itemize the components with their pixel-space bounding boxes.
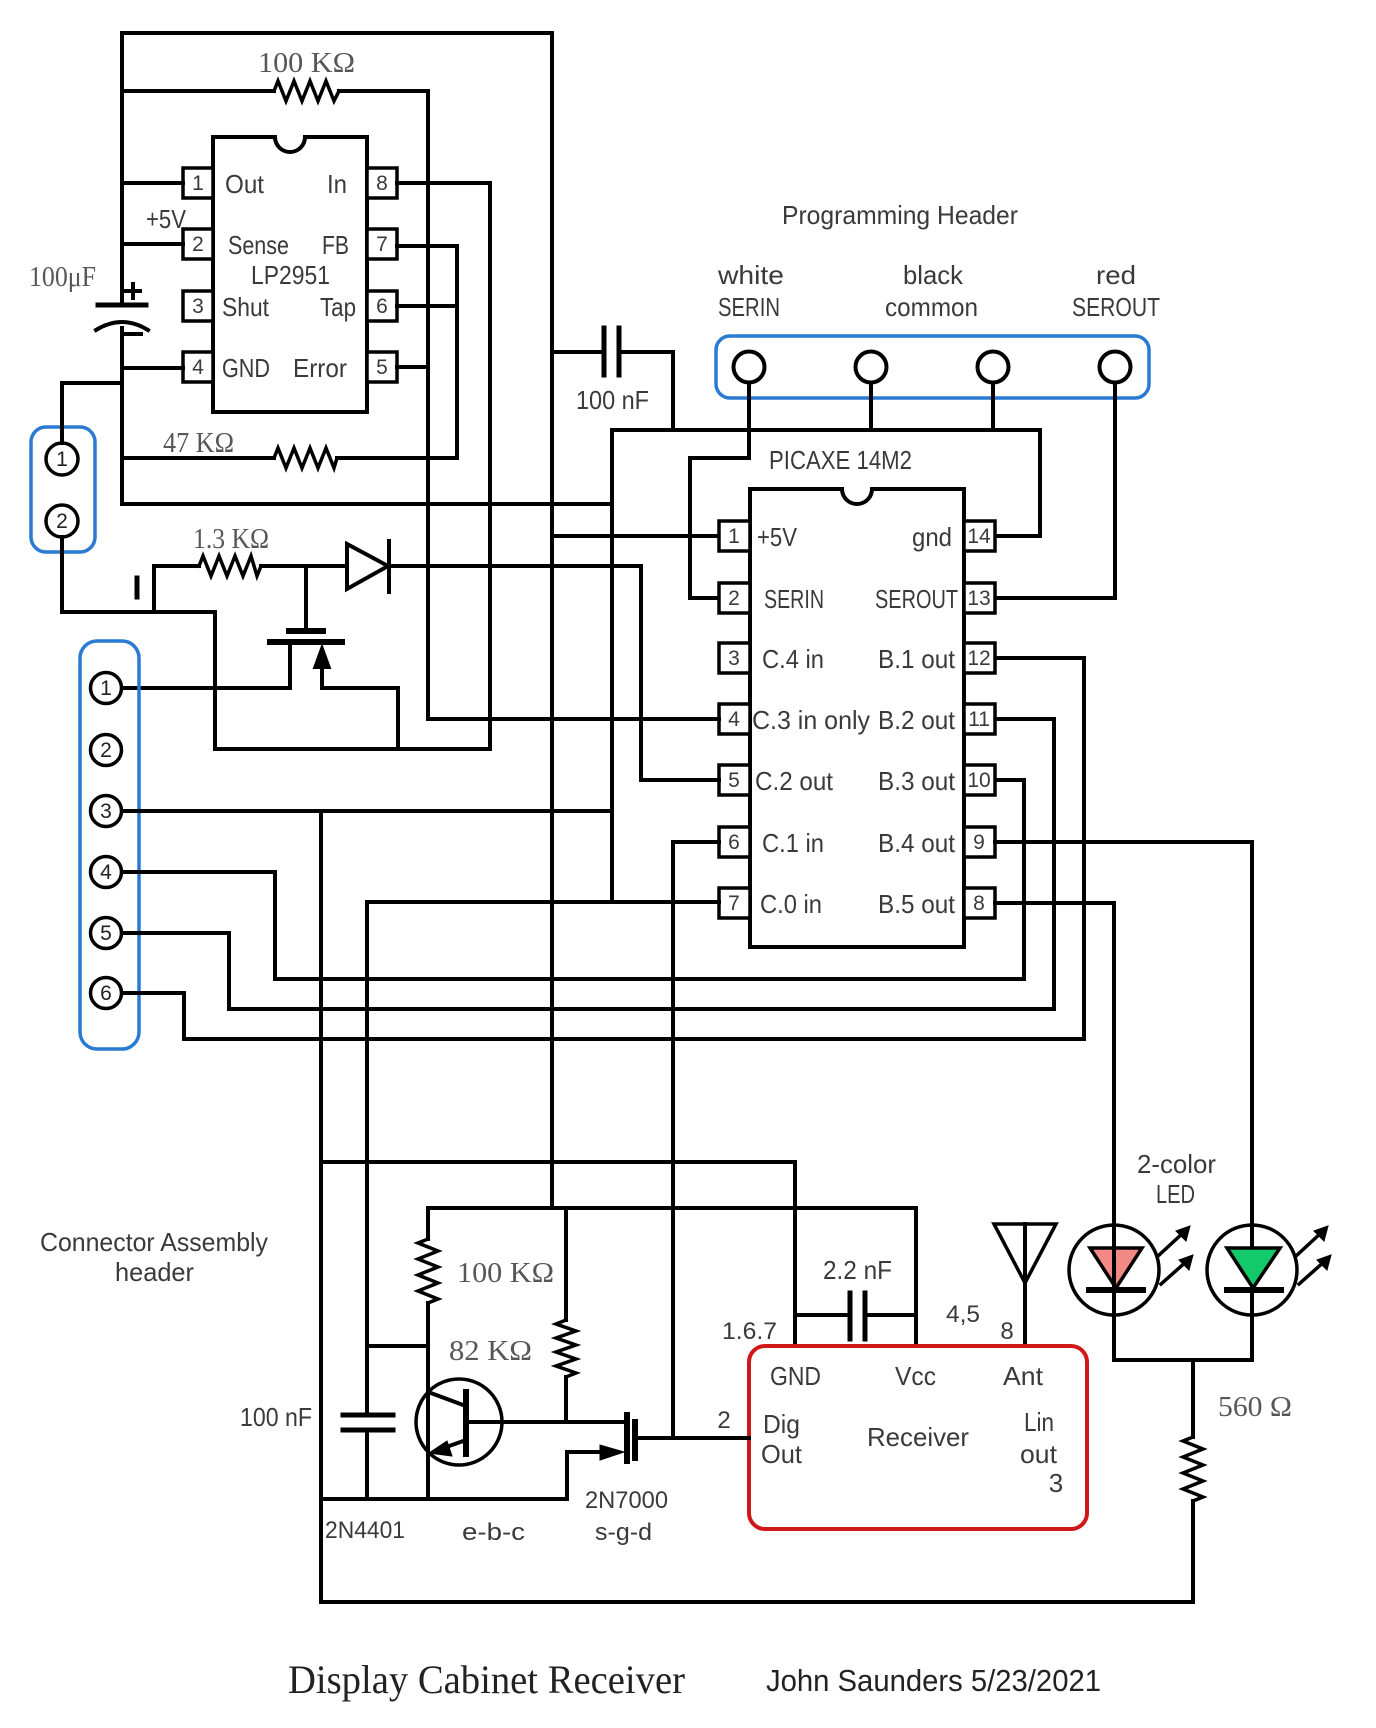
transistor Q2 2N4401 circle <box>416 1379 502 1465</box>
pin box U2-5 <box>719 765 750 795</box>
wire: J3 pin2 to gnd link <box>869 383 873 430</box>
svg-text:LED: LED <box>1156 1179 1195 1209</box>
svg-text:1: 1 <box>192 172 204 195</box>
transistor Q2 bar <box>463 1392 469 1454</box>
wire: C3 top lead <box>365 1346 369 1415</box>
svg-text:100 nF: 100 nF <box>240 1402 312 1432</box>
LED DS1 emission arrows <box>1158 1232 1187 1284</box>
LED DS1 wire through body <box>1112 1225 1116 1315</box>
wire: J3 pin1 to PICAXE SERIN <box>690 383 749 598</box>
wire: J2 pin5 to B.2 out <box>122 719 1054 1009</box>
pin box U2-2 <box>719 583 750 613</box>
svg-text:C.1 in: C.1 in <box>762 828 824 858</box>
svg-text:C.2 out: C.2 out <box>755 766 834 796</box>
wire: U1 pin2 Sense to left rail <box>122 242 183 246</box>
wire: Q2 base to 82K and Q3 gate <box>466 1420 626 1424</box>
svg-text:2: 2 <box>100 739 112 762</box>
pin box U1-7 <box>367 229 397 259</box>
wire: base link y1346 <box>367 1344 428 1348</box>
svg-text:C.4 in: C.4 in <box>762 644 824 674</box>
svg-text:11: 11 <box>968 708 990 731</box>
wire: U2 pin9 B.4 to green LED <box>995 842 1252 1360</box>
transistor Q1 P-MOSFET gate lead <box>304 566 308 629</box>
svg-text:1: 1 <box>100 677 112 700</box>
svg-text:7: 7 <box>376 233 388 256</box>
svg-text:100 KΩ: 100 KΩ <box>258 47 355 79</box>
svg-text:4: 4 <box>728 708 740 731</box>
svg-text:FB: FB <box>322 230 349 260</box>
wire: U2 pin8 B.5 to red LED <box>995 903 1114 1360</box>
svg-text:LP2951: LP2951 <box>251 260 330 290</box>
wire: receiver Vcc riser x916 <box>914 1208 918 1346</box>
resistor R 1.3K <box>199 556 261 576</box>
pin box U1-3 <box>183 291 213 321</box>
wire: ground rail bottom <box>321 1600 1193 1604</box>
pin box U2-3 <box>719 643 750 673</box>
svg-text:13: 13 <box>967 587 990 610</box>
svg-text:white: white <box>717 260 784 290</box>
svg-text:9: 9 <box>973 831 985 854</box>
wire: J1 pin2 down to 1.3K net <box>62 537 215 612</box>
pin box U2-9 <box>964 827 995 857</box>
wire: 100K bias bottom to BJT base <box>426 1303 430 1499</box>
svg-text:out: out <box>1020 1439 1058 1469</box>
antenna ANT1 triangle <box>994 1224 1056 1283</box>
wire: LED join to 560R <box>1191 1360 1195 1437</box>
wire: U1 pin8 In to bus x490 <box>397 183 490 748</box>
svg-text:100 KΩ: 100 KΩ <box>457 1257 554 1289</box>
pin box U2-14 <box>964 521 995 551</box>
svg-text:100 nF: 100 nF <box>576 385 649 415</box>
wire: x321 vertical to ground rail <box>319 811 323 1602</box>
wire: diode output net y566 <box>389 564 641 568</box>
resistor R 82K top lead <box>564 1208 568 1320</box>
wire: 47K net <box>122 456 274 460</box>
svg-text:14: 14 <box>967 525 991 548</box>
wire: +5V rail y1208 <box>428 1206 916 1210</box>
svg-text:6: 6 <box>728 831 740 854</box>
wire: x367 riser <box>365 902 369 1346</box>
wire: source to J2 pin1 <box>122 686 290 690</box>
connector J3 circle 2 black common <box>856 352 887 383</box>
svg-text:SEROUT: SEROUT <box>875 584 958 614</box>
svg-text:3: 3 <box>100 800 112 823</box>
connector J1 circle 1 <box>46 443 78 475</box>
svg-text:1.3 KΩ: 1.3 KΩ <box>193 523 269 555</box>
IC U1 LP2951 body <box>213 137 367 412</box>
connector J2 circle 3 <box>91 796 122 827</box>
svg-text:B.3 out: B.3 out <box>878 766 956 796</box>
svg-text:GND: GND <box>770 1361 821 1391</box>
svg-text:2: 2 <box>192 233 204 256</box>
resistor R 560 <box>1183 1437 1203 1501</box>
svg-text:2: 2 <box>56 510 68 533</box>
wire: 100K right to vertical bus x428 <box>339 91 428 718</box>
svg-text:Receiver: Receiver <box>867 1422 969 1452</box>
wire: U2 pin5 C.2 to diode net <box>641 566 719 780</box>
svg-text:C.0 in: C.0 in <box>760 889 822 919</box>
svg-text:Error: Error <box>293 353 347 383</box>
wire: drain rail y749 <box>215 612 490 749</box>
svg-text:GND: GND <box>222 353 270 383</box>
svg-text:header: header <box>115 1257 194 1287</box>
wire: U2 pin7 C.0 net y902 <box>367 900 719 904</box>
svg-text:+5V: +5V <box>146 204 187 234</box>
pin box U2-4 <box>719 704 750 734</box>
svg-text:e-b-c: e-b-c <box>462 1519 525 1546</box>
wire: 100K feedback net left <box>122 89 274 93</box>
LED DS1 red circle <box>1069 1225 1159 1315</box>
wire: emitter rail y1499 <box>321 1497 567 1501</box>
pin box U2-1 <box>719 521 750 551</box>
wire: U2 pin6 C.1 to x673 bus <box>673 840 719 844</box>
wire: 100K bias top lead <box>426 1208 430 1239</box>
svg-text:Shut: Shut <box>222 292 270 322</box>
capacitor C1 plus mark <box>126 284 140 298</box>
wire: U2 pin4 C.3 to bus x428 <box>428 717 719 721</box>
LED DS2 emission arrows <box>1296 1232 1325 1284</box>
svg-text:5: 5 <box>728 769 740 792</box>
capacitor C4 2.2nF left lead <box>795 1313 850 1317</box>
transistor Q1 body arrow <box>314 646 330 668</box>
resistor R 82K <box>556 1320 576 1377</box>
svg-text:B.5 out: B.5 out <box>878 889 956 919</box>
diode D1 body <box>347 544 388 589</box>
wire: gnd rail y504 <box>122 502 612 506</box>
capacitor C1 100uF curved plate <box>96 322 148 330</box>
connector J3 circle 1 white SERIN <box>734 352 765 383</box>
wire: x612 riser <box>610 430 614 902</box>
svg-text:7: 7 <box>728 892 740 915</box>
svg-text:common: common <box>885 292 978 322</box>
svg-text:C.3 in only: C.3 in only <box>752 705 870 735</box>
svg-text:3: 3 <box>728 647 740 670</box>
connector J2 circle 6 <box>91 978 122 1009</box>
wire: J3 pin3 to gnd link <box>991 383 995 430</box>
svg-text:Out: Out <box>761 1439 803 1469</box>
svg-text:1: 1 <box>56 448 68 471</box>
svg-text:1.6.7: 1.6.7 <box>722 1318 777 1345</box>
pin box U1-4 <box>183 352 213 382</box>
svg-text:Dig: Dig <box>763 1409 800 1439</box>
transistor Q1 source leg <box>288 645 292 688</box>
transistor Q2 collector diagonal <box>428 1392 466 1406</box>
wire: U1 pin1 Out to left rail <box>122 181 183 185</box>
svg-text:8: 8 <box>376 172 388 195</box>
svg-text:3: 3 <box>1049 1468 1063 1498</box>
svg-text:100μF: 100μF <box>29 261 96 293</box>
antenna ANT1 mast <box>1023 1224 1027 1346</box>
LED DS2 cathode bar <box>1227 1287 1281 1293</box>
svg-text:Display Cabinet Receiver: Display Cabinet Receiver <box>288 1657 685 1702</box>
svg-text:5: 5 <box>376 356 388 379</box>
svg-text:4: 4 <box>100 861 112 884</box>
pin box U1-2 <box>183 229 213 259</box>
svg-text:Tap: Tap <box>320 292 356 322</box>
svg-text:+5V: +5V <box>757 522 798 552</box>
capacitor C4 2.2nF plates <box>850 1293 865 1339</box>
svg-text:Ant: Ant <box>1003 1361 1044 1391</box>
svg-text:Vcc: Vcc <box>895 1361 936 1391</box>
svg-text:In: In <box>327 169 347 199</box>
transistor Q3 channel bar <box>632 1422 638 1458</box>
connector J1 circle 2 <box>46 505 78 537</box>
pin box U1-6 <box>367 291 397 321</box>
svg-text:47 KΩ: 47 KΩ <box>163 427 234 459</box>
connector J2 circle 4 <box>91 857 122 888</box>
svg-text:12: 12 <box>967 647 990 670</box>
pin box U2-6 <box>719 827 750 857</box>
LED DS1 cathode bar <box>1089 1287 1143 1293</box>
svg-text:8: 8 <box>1000 1318 1013 1345</box>
svg-text:82 KΩ: 82 KΩ <box>449 1335 532 1367</box>
LED DS2 green triangle <box>1227 1248 1280 1288</box>
wire: U1 pin5 Error to bus x428 <box>397 365 428 369</box>
svg-text:2.2 nF: 2.2 nF <box>823 1255 892 1285</box>
svg-text:10: 10 <box>967 769 990 792</box>
wire: 1.3K left terminal <box>154 566 199 612</box>
capacitor C3 100nF plates <box>343 1415 393 1430</box>
connector J2 6-pin body <box>80 641 139 1049</box>
capacitor C4 right lead <box>865 1313 916 1317</box>
capacitor C2 100nF left lead <box>552 350 604 354</box>
transistor Q1 gate bar <box>289 628 323 634</box>
svg-text:2N4401: 2N4401 <box>325 1517 405 1544</box>
diode D1 cathode bar <box>387 541 391 592</box>
svg-text:5: 5 <box>100 922 112 945</box>
svg-text:8: 8 <box>973 892 985 915</box>
resistor R 100K bias <box>418 1239 438 1303</box>
wire: J3 pin4 to PICAXE SEROUT <box>995 383 1115 598</box>
wire: 1.3K to diode anode <box>261 564 347 568</box>
transistor Q3 2N7000 gate bar <box>624 1415 630 1461</box>
connector J2 circle 2 <box>91 735 122 766</box>
svg-text:2-color: 2-color <box>1137 1149 1216 1179</box>
capacitor C1 minus mark <box>124 332 141 336</box>
resistor R 100K top <box>274 81 339 101</box>
svg-text:3: 3 <box>192 295 204 318</box>
svg-text:B.4 out: B.4 out <box>878 828 956 858</box>
pin box U2-12 <box>964 643 995 673</box>
wire: U1 pin7 FB to riser x457 <box>397 246 457 458</box>
wire: C2 right lead to gnd line <box>619 352 673 430</box>
svg-text:SEROUT: SEROUT <box>1072 292 1160 322</box>
wire: C3 bottom lead <box>365 1430 369 1499</box>
pin box U1-5 <box>367 352 397 382</box>
pin box U1-8 <box>367 168 397 198</box>
svg-text:SERIN: SERIN <box>764 584 824 614</box>
svg-text:2: 2 <box>717 1407 730 1434</box>
svg-text:Lin: Lin <box>1024 1407 1054 1437</box>
pin box U2-7 <box>719 888 750 918</box>
svg-text:4: 4 <box>192 356 204 379</box>
wire: J1 pin1 to gnd <box>62 383 122 443</box>
wire: Q3 drain to receiver Dig Out <box>637 1436 749 1440</box>
transistor Q1 channel bar <box>270 639 342 645</box>
wire: J2 pin3 to x612 <box>122 809 612 813</box>
wire: receiver GND riser x795 <box>793 1162 797 1346</box>
wire: Q3 source lead <box>567 1452 601 1499</box>
svg-text:B.1 out: B.1 out <box>878 644 956 674</box>
svg-text:2: 2 <box>728 587 740 610</box>
wire: +5V top border <box>122 33 552 305</box>
wire: gnd link to PICAXE pin14 <box>995 430 1040 536</box>
pin box U2-11 <box>964 704 995 734</box>
connector J2 circle 1 <box>91 673 122 704</box>
svg-text:black: black <box>903 260 964 290</box>
wire: 47K right to riser x457 <box>337 456 457 460</box>
module RX1 receiver body <box>749 1346 1087 1529</box>
transistor Q2 emitter diagonal <box>438 1440 466 1450</box>
capacitor C1 100uF top plate <box>98 303 146 308</box>
wire: x673 bus down to receiver Dig Out <box>671 842 675 1438</box>
transistor Q1 drain leg with body arrow shaft <box>320 668 324 688</box>
wire: J2 pin4 to B.3 out <box>122 780 1024 979</box>
svg-text:gnd: gnd <box>912 522 952 552</box>
transistor Q2 emitter arrow <box>429 1441 452 1456</box>
wire: +5V to PICAXE pin1 <box>552 534 719 538</box>
svg-text:PICAXE 14M2: PICAXE 14M2 <box>769 445 912 475</box>
IC U2 PICAXE 14M2 body <box>750 489 964 947</box>
wire: left rail below cap <box>120 328 124 504</box>
connector J3 programming header body <box>716 336 1149 398</box>
polarity tick mark <box>135 578 140 597</box>
svg-text:s-g-d: s-g-d <box>595 1519 652 1546</box>
LED DS1 red triangle <box>1090 1248 1142 1288</box>
svg-text:Programming Header: Programming Header <box>782 200 1018 230</box>
connector J3 circle 4 red SEROUT <box>1100 352 1131 383</box>
wire: 82K bottom lead <box>564 1377 568 1422</box>
svg-text:Sense: Sense <box>228 230 289 260</box>
resistor R 47K <box>274 448 337 468</box>
svg-text:1: 1 <box>728 525 740 548</box>
LED DS2 green circle <box>1207 1225 1297 1315</box>
wire: gnd link y430 <box>612 428 1040 432</box>
connector J2 circle 5 <box>91 918 122 949</box>
wire: U1 pin4 GND to left rail <box>122 366 183 370</box>
svg-text:John Saunders 5/23/2021: John Saunders 5/23/2021 <box>766 1663 1101 1698</box>
svg-text:Connector Assembly: Connector Assembly <box>40 1227 268 1257</box>
pin box U2-8 <box>964 888 995 918</box>
svg-text:Out: Out <box>225 169 265 199</box>
svg-text:6: 6 <box>376 295 388 318</box>
capacitor C2 100nF plates <box>604 328 619 375</box>
wire: x552 +5V bus <box>550 33 554 1208</box>
LED DS2 wire through body <box>1250 1225 1254 1315</box>
pin box U2-10 <box>964 765 995 795</box>
wire: drain to x398 riser <box>322 688 398 749</box>
svg-text:B.2 out: B.2 out <box>878 705 956 735</box>
svg-text:SERIN: SERIN <box>718 292 780 322</box>
transistor Q3 source arrow <box>600 1445 624 1460</box>
connector J1 2-pin body <box>31 427 95 552</box>
pin box U1-1 <box>183 168 213 198</box>
svg-text:560 Ω: 560 Ω <box>1218 1391 1292 1423</box>
wire: 560R to ground rail <box>1191 1501 1195 1602</box>
wire: gnd link y1162 <box>321 1160 795 1164</box>
wire: U1 pin6 Tap to riser x457 <box>397 304 457 308</box>
svg-text:6: 6 <box>100 982 112 1005</box>
wire: J2 pin6 to B.1 out <box>122 658 1084 1039</box>
svg-text:2N7000: 2N7000 <box>585 1487 668 1514</box>
svg-text:4,5: 4,5 <box>946 1301 980 1328</box>
pin box U2-13 <box>964 583 995 613</box>
svg-text:red: red <box>1096 260 1136 290</box>
wire: LED cathode join y1360 <box>1114 1358 1252 1362</box>
connector J3 circle 3 black common <box>978 352 1009 383</box>
